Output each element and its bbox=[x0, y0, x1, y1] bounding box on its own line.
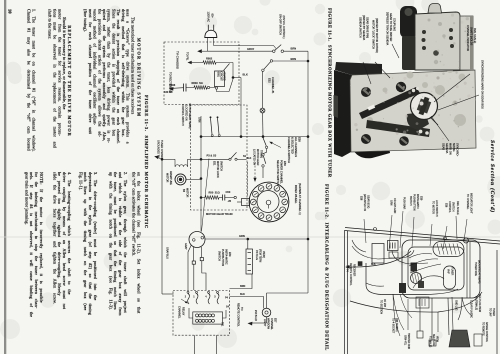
svg-text:RANGE CONTROL: RANGE CONTROL bbox=[485, 322, 488, 343]
svg-text:INDEX WHEEL: INDEX WHEEL bbox=[294, 185, 298, 204]
svg-text:SEE PLUG VIEW: SEE PLUG VIEW bbox=[478, 294, 480, 313]
ground to tuner chassis bbox=[157, 157, 162, 159]
svg-text:MOTOR “LOCK” SWITCH: MOTOR “LOCK” SWITCH bbox=[372, 20, 375, 49]
svg-text:E56: E56 bbox=[445, 203, 448, 208]
insta-matic switch stubs bbox=[193, 247, 195, 261]
svg-text:GRN: GRN bbox=[390, 200, 393, 206]
svg-text:R50 21Ω: R50 21Ω bbox=[209, 191, 220, 195]
svg-text:TUNER: TUNER bbox=[492, 308, 494, 316]
svg-text:TUNER CHASSIS: TUNER CHASSIS bbox=[160, 140, 163, 160]
wire GRAY to on-off switch bbox=[208, 50, 273, 52]
svg-text:CHANNELS SWITCH: CHANNELS SWITCH bbox=[287, 137, 291, 163]
switch E52 channel #1 off bbox=[273, 60, 309, 62]
photo lever bar 2 bbox=[366, 120, 430, 137]
more cable sweeps bbox=[352, 246, 398, 259]
connector box E58 bbox=[372, 244, 384, 264]
motor armature B4 bbox=[175, 174, 186, 185]
photo dark wedge left bbox=[334, 95, 339, 118]
switch E51 motor lock bbox=[201, 158, 229, 160]
photo motor housing bbox=[400, 6, 417, 38]
svg-text:GRN: GRN bbox=[239, 234, 245, 238]
switch ON-OFF (ganged vol control) bbox=[273, 50, 276, 53]
relay exit wires bottom bbox=[194, 335, 196, 354]
svg-text:CHANNEL: CHANNEL bbox=[178, 306, 182, 319]
connector box with pins bbox=[388, 241, 399, 251]
svg-text:TB1: TB1 bbox=[221, 322, 224, 327]
svg-text:(DRIVEN BY GENEVA: (DRIVEN BY GENEVA bbox=[362, 15, 365, 41]
svg-text:GROUNDED TO: GROUNDED TO bbox=[156, 140, 159, 158]
svg-text:GRN-YEL: GRN-YEL bbox=[404, 335, 406, 346]
svg-text:(MOUNTED AT REAR): (MOUNTED AT REAR) bbox=[478, 260, 481, 284]
connector plugs dark bbox=[411, 263, 418, 272]
svg-text:OF E58: OF E58 bbox=[383, 299, 385, 308]
scan page edge shadow bbox=[4, 0, 6, 354]
svg-text:P4 PLUG: P4 PLUG bbox=[255, 250, 258, 260]
svg-text:MOTOR GEAR: MOTOR GEAR bbox=[256, 149, 259, 166]
svg-text:TUNER: TUNER bbox=[451, 267, 454, 276]
svg-text:MOTOR: MOTOR bbox=[186, 188, 189, 197]
photo gear box mounting plate bbox=[350, 70, 476, 152]
faint fold line bbox=[0, 236, 500, 238]
svg-text:VIEW): VIEW) bbox=[262, 251, 265, 258]
svg-text:Channel #1 may also be determi: Channel #1 may also be determined by the… bbox=[27, 9, 32, 151]
svg-text:C50: C50 bbox=[226, 190, 231, 194]
relay exit wires right bbox=[230, 274, 253, 288]
svg-text:FIGURE 11-1. SYNCHRONIZING MO: FIGURE 11-1. SYNCHRONIZING MOTOR GEAR BO… bbox=[328, 8, 333, 178]
svg-text:slide the drive faces together: slide the drive faces together and tight… bbox=[52, 172, 57, 304]
svg-text:(SHOWN AT CHANNEL 1): (SHOWN AT CHANNEL 1) bbox=[298, 183, 302, 215]
wires below tuner bbox=[419, 298, 421, 331]
svg-text:RECEIVER: RECEIVER bbox=[353, 264, 356, 276]
relay coil frame bbox=[193, 312, 223, 324]
svg-text:MOTOR GEAR TRAIN): MOTOR GEAR TRAIN) bbox=[188, 104, 191, 129]
svg-text:CHANNEL #1: CHANNEL #1 bbox=[271, 77, 275, 94]
switch E58 all channels bbox=[263, 138, 266, 146]
svg-text:TO REMOTE: TO REMOTE bbox=[482, 322, 484, 336]
svg-text:GRAY: GRAY bbox=[184, 243, 187, 250]
junction block bbox=[358, 261, 363, 266]
svg-text:SHAFT (HOLDS: SHAFT (HOLDS bbox=[470, 27, 473, 46]
svg-text:BLK: BLK bbox=[240, 293, 245, 296]
svg-text:R802: R802 bbox=[206, 57, 213, 61]
photo underside shadow bbox=[352, 146, 390, 158]
svg-text:OR GRY-GRN: OR GRY-GRN bbox=[393, 198, 396, 214]
svg-text:up with the timing notch on th: up with the timing notch on the gear box… bbox=[108, 172, 113, 310]
svg-text:CONTROL: CONTROL bbox=[448, 201, 451, 213]
svg-text:MOTOR DRIVING SYSTEM: MOTOR DRIVING SYSTEM bbox=[136, 38, 141, 118]
svg-text:E56: E56 bbox=[283, 161, 287, 166]
svg-text:TO CHANNEL: TO CHANNEL bbox=[466, 194, 469, 210]
svg-text:60~: 60~ bbox=[211, 14, 215, 19]
svg-text:(ON TUNER): (ON TUNER) bbox=[395, 318, 397, 332]
svg-text:P1 (MALE): P1 (MALE) bbox=[429, 336, 432, 347]
svg-text:TO UHF: TO UHF bbox=[489, 308, 491, 317]
wire / arrow TO FIL bbox=[191, 62, 204, 64]
svg-text:VHF: VHF bbox=[447, 269, 450, 274]
wire arrow to rectifiers bbox=[173, 87, 184, 90]
photo gear mass bbox=[407, 112, 429, 130]
svg-text:(fine tuning).: (fine tuning). bbox=[83, 9, 88, 32]
svg-text:P3 & S3: P3 & S3 bbox=[207, 154, 217, 158]
svg-text:GRAY: GRAY bbox=[247, 47, 255, 51]
small connector marks bbox=[417, 331, 423, 338]
svg-text:PUSH BAR: PUSH BAR bbox=[403, 197, 406, 209]
svg-text:TUNER SIDE: TUNER SIDE bbox=[474, 262, 476, 276]
dashed linkage to insta-matic bbox=[247, 162, 249, 197]
svg-text:BRN: BRN bbox=[291, 57, 297, 61]
svg-text:GEAR DRIVE PIN): GEAR DRIVE PIN) bbox=[366, 17, 369, 38]
svg-text:GRN: GRN bbox=[198, 117, 201, 123]
svg-text:SWITCH: SWITCH bbox=[409, 196, 412, 206]
svg-text:SYNCHRONIZING MARK ON GEAR BOX: SYNCHRONIZING MARK ON GEAR BOX bbox=[481, 60, 485, 109]
svg-text:POWER CHANNEL: POWER CHANNEL bbox=[280, 160, 284, 184]
svg-text:REMOTE CONTROL: REMOTE CONTROL bbox=[237, 303, 240, 327]
lamp E57 channel window light bbox=[267, 292, 309, 294]
svg-text:TWISTED PAIR: TWISTED PAIR bbox=[407, 333, 410, 350]
VHF tuner body bbox=[402, 240, 480, 298]
photo lever bar 1 bbox=[359, 87, 420, 119]
connector trapezoid bbox=[449, 330, 470, 347]
photo cover neck bbox=[428, 4, 442, 14]
wires to relay bbox=[193, 264, 195, 290]
svg-text:ALL CHANNELS: ALL CHANNELS bbox=[294, 137, 298, 157]
svg-text:10: 10 bbox=[7, 9, 12, 14]
svg-text:COUPLING: COUPLING bbox=[393, 18, 396, 31]
chassis edge double line bbox=[345, 228, 500, 242]
svg-text:ON-OFF SWITCH: ON-OFF SWITCH bbox=[278, 14, 282, 35]
svg-text:#44 BULB: #44 BULB bbox=[254, 310, 257, 321]
photo cover screws bbox=[422, 30, 426, 34]
svg-text:E58: E58 bbox=[360, 196, 363, 201]
svg-text:(MOUNTED ON: (MOUNTED ON bbox=[363, 194, 366, 211]
svg-text:TV CHASSIS: TV CHASSIS bbox=[176, 51, 180, 69]
svg-text:RELAY: RELAY bbox=[182, 307, 186, 316]
svg-text:TD-4 SOCKET: TD-4 SOCKET bbox=[392, 318, 394, 334]
svg-text:BRN: BRN bbox=[291, 47, 297, 51]
wire BRN bbox=[284, 50, 308, 52]
arrow to interlock bbox=[197, 49, 202, 53]
photo inset circle synchronizing mark bbox=[411, 93, 438, 120]
off cam tab bbox=[242, 199, 250, 206]
svg-text:SELECTOR SWITCH: SELECTOR SWITCH bbox=[276, 160, 280, 186]
photo gear box cover bbox=[415, 12, 460, 70]
control switch S2 contacts bbox=[210, 116, 212, 118]
inner cable loops bbox=[409, 254, 441, 274]
svg-text:VIEW: VIEW bbox=[436, 336, 438, 343]
switch E56 power channel selector bbox=[262, 154, 264, 156]
svg-text:GENEVA SWITCH: GENEVA SWITCH bbox=[359, 17, 362, 38]
cables bbox=[366, 263, 458, 295]
svg-text:P4 (FEMALE): P4 (FEMALE) bbox=[475, 296, 478, 310]
svg-text:BLK: BLK bbox=[243, 72, 248, 76]
svg-text:BRN: BRN bbox=[240, 285, 245, 288]
connector P3 and S3 bbox=[189, 232, 205, 248]
svg-text:GND LUG: GND LUG bbox=[455, 300, 457, 311]
svg-text:& SELECTED: & SELECTED bbox=[291, 137, 295, 154]
connector P4 plug bbox=[246, 249, 253, 274]
svg-text:Service Section (Cont'd): Service Section (Cont'd) bbox=[489, 140, 496, 213]
svg-text:(ON VOL CONTROL): (ON VOL CONTROL) bbox=[282, 16, 285, 39]
svg-text:DIAL SCALE: DIAL SCALE bbox=[456, 201, 459, 215]
svg-text:.25: .25 bbox=[228, 199, 232, 203]
svg-text:ARMATURE: ARMATURE bbox=[169, 171, 172, 185]
wire R802 to junction bbox=[216, 62, 233, 64]
svg-text:TO SECTION: TO SECTION bbox=[380, 300, 382, 314]
svg-text:CHANNEL INDICATOR: CHANNEL INDICATOR bbox=[466, 25, 469, 51]
photo side bracket bbox=[460, 16, 473, 70]
svg-text:the “off” cam activates the ch: the “off” cam activates the channel “off… bbox=[132, 172, 137, 256]
dial pointer capsule bbox=[433, 242, 464, 257]
svg-text:MOTOR LOCK: MOTOR LOCK bbox=[216, 161, 219, 178]
wire GRAY-BLU bbox=[161, 159, 163, 294]
svg-text:TRAIN): TRAIN) bbox=[260, 150, 263, 158]
index wheel (shown at channel 1) bbox=[249, 182, 289, 222]
pointer to E58 bbox=[271, 143, 281, 148]
svg-text:SWITCH: SWITCH bbox=[220, 161, 223, 171]
photo dark backdrop left strip bbox=[334, 70, 352, 157]
svg-text:0801: 0801 bbox=[217, 72, 219, 78]
svg-text:gear train and motor jamming.: gear train and motor jamming. bbox=[24, 172, 29, 225]
dashed box MOTOR GEAR TRAIN bbox=[191, 105, 248, 210]
terminal E52 bbox=[262, 71, 264, 108]
field coil bbox=[162, 158, 175, 160]
svg-text:340 MF: 340 MF bbox=[164, 90, 173, 94]
svg-text:TO FIL: TO FIL bbox=[186, 52, 190, 61]
svg-text:E51: E51 bbox=[213, 161, 216, 166]
wire GRN to bus bbox=[205, 238, 308, 240]
dashed box TV CHASSIS bbox=[164, 42, 239, 105]
wire GRN stub / motor bus bbox=[200, 116, 202, 232]
dashed box CHANNEL RELAY bbox=[173, 291, 230, 336]
svg-text:DEPRESS TON ON GENEVA: DEPRESS TON ON GENEVA bbox=[386, 12, 389, 46]
svg-text:SEE PLUG: SEE PLUG bbox=[432, 334, 434, 346]
svg-text:LOCK SWITCH: LOCK SWITCH bbox=[435, 200, 438, 217]
svg-text:E52: E52 bbox=[268, 78, 272, 83]
svg-text:E58: E58 bbox=[298, 137, 302, 142]
svg-text:INDICATOR LIGHT: INDICATOR LIGHT bbox=[470, 193, 473, 214]
svg-text:Fig. 11-1).: Fig. 11-1). bbox=[78, 172, 83, 190]
svg-text:C808: C808 bbox=[169, 83, 176, 87]
pointer arrow bbox=[181, 299, 187, 303]
svg-text:120V AC: 120V AC bbox=[207, 12, 211, 23]
wire horizontal control bus bbox=[201, 136, 308, 138]
svg-text:(LOCATED ON: (LOCATED ON bbox=[185, 105, 188, 121]
photo dark backdrop top-left bbox=[335, 62, 382, 76]
svg-text:LIGHT: LIGHT bbox=[263, 319, 266, 327]
svg-text:R803 5Ω: R803 5Ω bbox=[192, 81, 203, 85]
svg-text:TO MOTOR: TO MOTOR bbox=[432, 201, 435, 214]
main bus wire bbox=[307, 51, 309, 293]
svg-text:FIGURE 11-3. SIMPLIFIED MOTOR: FIGURE 11-3. SIMPLIFIED MOTOR SCHEMATIC bbox=[144, 95, 149, 229]
power cord wires bbox=[207, 38, 209, 52]
svg-text:FIGURE 11-2. INTERCABLING & P: FIGURE 11-2. INTERCABLING & PLUG DESIGNA… bbox=[325, 184, 330, 351]
svg-text:shaft to the tuner.: shaft to the tuner. bbox=[48, 9, 53, 39]
svg-text:GEAR: GEAR bbox=[442, 143, 445, 150]
svg-text:DIAL SCALE): DIAL SCALE) bbox=[473, 28, 476, 43]
svg-text:(FEM TERM: (FEM TERM bbox=[259, 249, 262, 262]
relay contacts bbox=[187, 291, 189, 293]
svg-text:CIRCUIT: CIRCUIT bbox=[220, 72, 222, 82]
circuit breaker 0801 CIRCUIT GUARD bbox=[215, 71, 225, 87]
wire GRAY from P3 to relay bbox=[188, 245, 191, 290]
svg-text:MOTOR GEAR TRAIN: MOTOR GEAR TRAIN bbox=[206, 212, 233, 216]
photo screws bbox=[361, 87, 371, 97]
svg-text:SWITCH: SWITCH bbox=[218, 251, 221, 261]
svg-text:SWITCH: SWITCH bbox=[452, 202, 455, 212]
junction node bbox=[232, 76, 235, 79]
svg-text:GEAR BOX): GEAR BOX) bbox=[367, 195, 370, 208]
svg-text:CONTROL SWITCH: CONTROL SWITCH bbox=[181, 104, 184, 126]
cable arrow bbox=[345, 265, 349, 268]
svg-text:GRAY-BLU: GRAY-BLU bbox=[166, 247, 169, 259]
svg-text:GUARD: GUARD bbox=[223, 72, 226, 81]
svg-text:GEAR TO TAKE DRIVER: GEAR TO TAKE DRIVER bbox=[389, 13, 392, 41]
svg-text:MOTOR: MOTOR bbox=[166, 173, 169, 182]
svg-text:BLK: BLK bbox=[371, 264, 376, 266]
svg-text:notch lines up with the timing: notch lines up with the timing notch on … bbox=[83, 172, 88, 310]
VHF tuner capsule label bbox=[444, 266, 456, 289]
svg-text:(DRIVEN BY MOTOR ROTOR): (DRIVEN BY MOTOR ROTOR) bbox=[375, 18, 378, 53]
dial drum hatched bbox=[411, 273, 422, 284]
AC plug P1 bbox=[205, 30, 217, 37]
